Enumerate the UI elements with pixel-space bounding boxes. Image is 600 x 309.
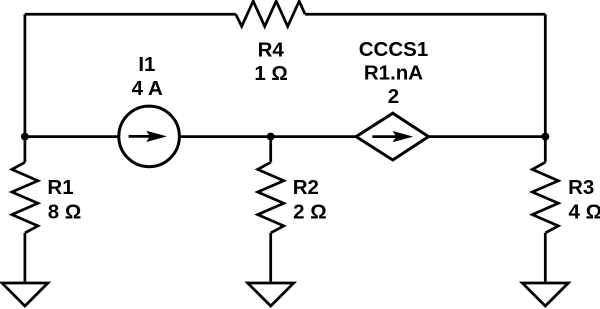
svg-text:R2: R2 — [293, 176, 319, 199]
svg-text:R1: R1 — [47, 176, 73, 199]
svg-text:R4: R4 — [258, 38, 285, 61]
svg-text:2: 2 — [388, 85, 399, 108]
svg-text:R1.nA: R1.nA — [364, 62, 423, 85]
svg-text:CCCS1: CCCS1 — [359, 38, 429, 61]
svg-text:2 Ω: 2 Ω — [293, 200, 327, 223]
svg-text:R3: R3 — [568, 176, 594, 199]
svg-text:1 Ω: 1 Ω — [254, 62, 288, 85]
svg-text:4 Ω: 4 Ω — [569, 200, 600, 223]
svg-text:8 Ω: 8 Ω — [48, 200, 82, 223]
svg-text:I1: I1 — [138, 53, 155, 76]
svg-text:4 A: 4 A — [132, 77, 163, 100]
